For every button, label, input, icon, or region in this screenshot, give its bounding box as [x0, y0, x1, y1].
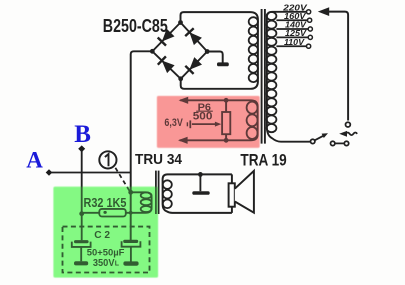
svg-text:B250-C85: B250-C85 [103, 16, 168, 36]
svg-text:TRU 34: TRU 34 [135, 151, 182, 168]
svg-text:110V: 110V [284, 38, 306, 47]
svg-text:125V: 125V [285, 29, 308, 38]
svg-text:A: A [26, 147, 43, 172]
svg-text:160V: 160V [284, 12, 307, 21]
svg-text:B: B [74, 121, 91, 148]
svg-text:TRA 19: TRA 19 [240, 153, 286, 170]
